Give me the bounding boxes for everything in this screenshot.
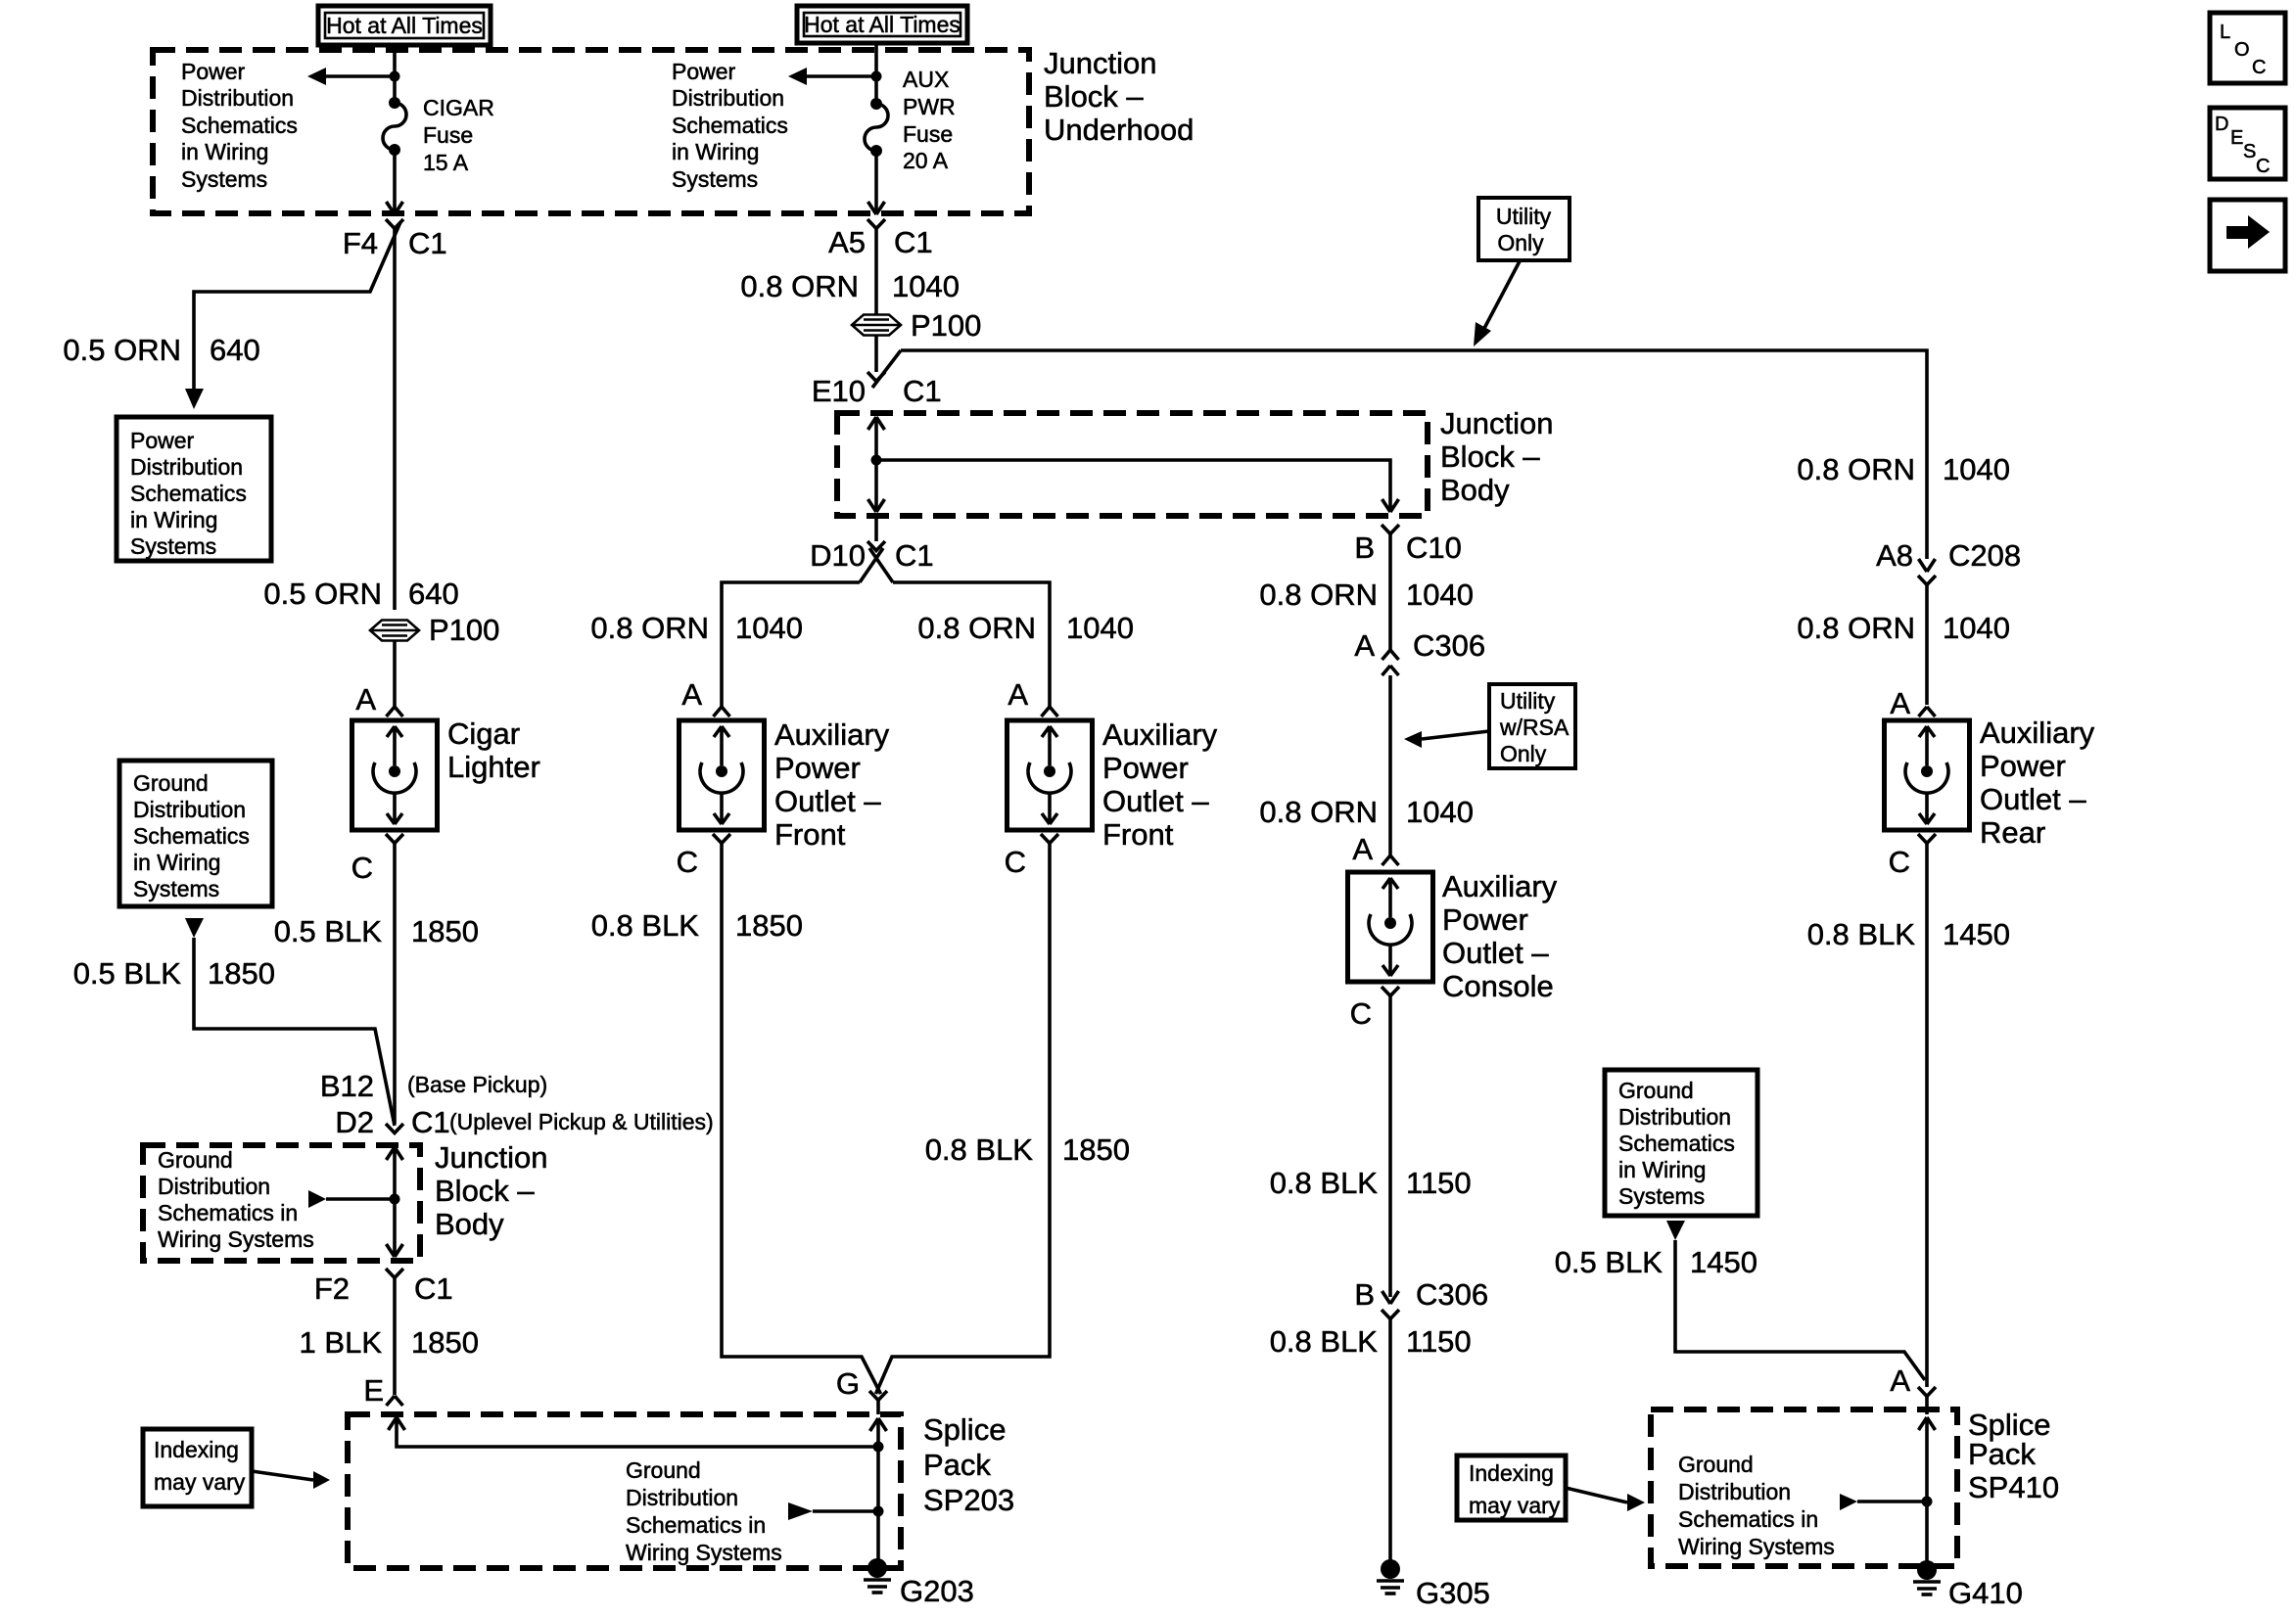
svg-text:D10: D10 [810,538,866,573]
svg-text:Splice: Splice [923,1412,1006,1447]
svg-text:Systems: Systems [1618,1183,1705,1209]
svg-text:(Uplevel Pickup & Utilities): (Uplevel Pickup & Utilities) [449,1109,714,1134]
reference box Power Distribution Schematics in Wiring Systems [117,417,271,561]
svg-text:Distribution: Distribution [130,454,243,480]
svg-text:Junction: Junction [1044,46,1156,80]
svg-text:Schematics: Schematics [133,823,250,849]
label 0.5 ORN 640 (branch) [63,333,259,367]
connector C1 pin D10 (female split) [860,516,893,582]
connector C1 pin A5 (female) [867,219,885,229]
svg-text:Power: Power [672,59,736,84]
svg-text:Schematics in: Schematics in [1678,1506,1818,1532]
label Ground Distribution Schematics in Wiring Systems (in SP410) [1678,1452,1835,1559]
svg-text:Outlet –: Outlet – [774,784,881,818]
svg-text:0.5 ORN: 0.5 ORN [63,333,181,367]
connector pin C console outlet [1382,987,1399,996]
svg-text:in Wiring: in Wiring [133,850,220,875]
svg-text:0.5 BLK: 0.5 BLK [1555,1245,1663,1279]
svg-text:0.8 ORN: 0.8 ORN [1259,577,1378,612]
ground G203 [864,1558,891,1593]
svg-text:Auxiliary: Auxiliary [774,717,890,752]
connector pin C cigar lighter [386,834,403,844]
svg-text:C10: C10 [1406,531,1462,565]
splice pack SP203 (dashed outline) [348,1414,901,1568]
svg-text:1850: 1850 [208,956,275,991]
wire 0.8 ORN 1040 to rear outlet [1925,585,1929,706]
wire 0.5 BLK 1850 from cigar lighter [393,844,397,1125]
connector C306 pin B (inline, down) [1382,1291,1399,1319]
svg-text:C: C [1889,845,1910,879]
svg-text:C: C [1350,996,1372,1031]
svg-text:C1: C1 [411,1105,450,1139]
svg-text:SP410: SP410 [1968,1470,2059,1504]
label 0.8 ORN 1040 (rear upper) [1797,452,2010,486]
svg-text:Wiring Systems: Wiring Systems [158,1226,314,1252]
svg-text:G203: G203 [900,1574,974,1608]
wire 1 BLK 1850 to splice pack [393,1278,397,1396]
svg-text:15 A: 15 A [423,150,469,175]
svg-text:A: A [681,677,702,712]
junction dot SP410 [1922,1497,1933,1507]
svg-text:Power: Power [774,751,861,785]
label 0.8 ORN 1040 (console upper) [1259,577,1474,612]
svg-text:0.5 BLK: 0.5 BLK [274,914,383,948]
svg-text:Systems: Systems [181,166,267,192]
svg-text:C: C [351,851,373,885]
svg-text:C1: C1 [903,374,942,408]
svg-text:0.5 BLK: 0.5 BLK [73,956,182,991]
label 0.5 ORN 640 (main) [263,577,458,611]
label Auxiliary Power Outlet - Console [1442,869,1558,1003]
label Junction Block - Underhood [1044,46,1194,147]
svg-text:1850: 1850 [411,914,479,948]
component Auxiliary Power Outlet - Rear [1885,720,1970,830]
svg-text:Fuse: Fuse [903,121,953,147]
svg-text:Ground: Ground [158,1147,233,1173]
svg-text:C1: C1 [895,538,934,573]
junction dot SP203 upper [873,1442,884,1453]
svg-text:C: C [1005,845,1026,879]
svg-text:Junction: Junction [1440,406,1553,440]
svg-text:E: E [2230,127,2243,149]
connector arrow into C1 at F4 [387,202,403,214]
label Auxiliary Power Outlet - Front (right) [1102,717,1218,852]
svg-text:C1: C1 [414,1271,453,1306]
svg-text:PWR: PWR [903,94,956,119]
svg-text:1040: 1040 [1943,611,2010,645]
wire 0.5 BLK 1450 from ground distribution reference to SP410 [1666,1221,1925,1380]
svg-text:A: A [1007,677,1028,712]
node Hot at All Times (left feed) [318,6,491,45]
connector splice pack pin E [387,1396,403,1406]
svg-text:Outlet –: Outlet – [1980,782,2086,816]
svg-text:may vary: may vary [1469,1493,1561,1518]
svg-text:D: D [2215,114,2228,135]
wire inside SP203 from pin E [389,1417,876,1447]
svg-text:Power: Power [1442,902,1528,937]
svg-text:1040: 1040 [1406,795,1474,829]
wire pin C right front outlet to G merge [876,844,1051,1395]
legend box next-page arrow [2210,200,2285,271]
svg-text:A: A [1890,686,1910,720]
svg-text:B12: B12 [320,1069,374,1103]
callout Utility Only [1478,198,1570,260]
svg-text:Only: Only [1497,230,1544,255]
svg-text:0.8 ORN: 0.8 ORN [590,611,709,645]
connector pin C left front outlet [713,834,730,844]
svg-text:Schematics: Schematics [1618,1131,1735,1156]
svg-text:Body: Body [1440,473,1510,507]
svg-text:C: C [677,845,698,879]
label 0.5 BLK 1850 (cigar) [274,914,479,948]
wire inside SP203 down to G203 [870,1401,887,1564]
svg-text:E10: E10 [812,374,866,408]
svg-text:Outlet –: Outlet – [1442,936,1549,970]
svg-text:G410: G410 [1948,1576,2023,1610]
wire arrow to Power Distribution Schematics (left, col1) [307,68,395,85]
svg-text:Ground: Ground [626,1457,701,1483]
svg-text:P100: P100 [429,613,499,647]
svg-text:0.8 ORN: 0.8 ORN [917,611,1036,645]
svg-text:E: E [363,1373,384,1408]
ground G410 [1913,1560,1941,1594]
svg-text:P100: P100 [911,308,981,343]
svg-text:Power: Power [181,59,246,84]
svg-text:A8: A8 [1876,538,1913,573]
label Cigar Lighter [447,716,540,784]
svg-text:C1: C1 [408,226,447,260]
svg-text:in Wiring: in Wiring [130,507,217,532]
fuse AUX PWR Fuse 20 A [865,98,888,157]
wire 0.5 ORN 640 to cigar lighter [393,228,397,610]
component Auxiliary Power Outlet - Console [1348,872,1433,982]
svg-text:0.8 BLK: 0.8 BLK [925,1132,1034,1167]
svg-text:Utility: Utility [1496,204,1552,229]
svg-text:Front: Front [1102,817,1174,852]
svg-text:1040: 1040 [892,269,960,303]
svg-text:C: C [2256,156,2270,177]
reference box Ground Distribution Schematics in Wiring Systems (left) [119,761,272,906]
wire P100 to junction block body [874,336,878,372]
svg-text:0.5 ORN: 0.5 ORN [263,577,382,611]
ground G305 [1377,1559,1404,1594]
svg-text:Schematics in: Schematics in [158,1200,298,1225]
wire arrow from Indexing may vary to SP203 [252,1471,330,1489]
svg-text:Hot at All Times: Hot at All Times [326,13,483,38]
label 0.8 BLK 1450 [1807,917,2010,951]
label 0.8 BLK 1850 (left front outlet) [591,908,803,943]
connector pin A right front outlet [1042,707,1058,716]
label Power Distribution Schematics in Wiring Systems (col2) [672,59,788,192]
wire AUX PWR fuse output [874,151,878,214]
svg-text:1850: 1850 [411,1325,479,1360]
svg-text:1040: 1040 [1066,611,1134,645]
svg-text:Outlet –: Outlet – [1102,784,1209,818]
svg-text:Body: Body [435,1207,504,1241]
svg-text:(Base Pickup): (Base Pickup) [407,1072,547,1097]
svg-text:B: B [1354,531,1375,565]
svg-text:Power: Power [130,428,195,453]
wire from Hot at All Times to CIGAR fuse [393,45,397,103]
wire split to left front outlet [722,582,860,707]
svg-text:Pack: Pack [923,1448,991,1482]
svg-text:0.8 BLK: 0.8 BLK [1270,1166,1379,1200]
node Hot at All Times (right feed) [797,6,967,43]
svg-text:Block –: Block – [1044,79,1144,114]
callout Utility w/RSA Only [1489,684,1575,768]
component Cigar Lighter [352,720,438,830]
connector SP203 pin G (female) [869,1391,887,1401]
junction block U2 Junction Block - Body lower (dashed outline) [143,1145,420,1261]
wire arrow to Power Distribution Schematics (left, col2) [788,68,876,85]
splice pack SP410 (dashed outline) [1651,1409,1957,1566]
connector C1 pin F4 (female) [386,219,403,229]
svg-text:AUX: AUX [903,67,949,92]
svg-text:1040: 1040 [1406,577,1474,612]
connector P100 (col1) [370,621,419,641]
junction dot at AUX PWR fuse feed [871,71,882,82]
label 0.8 ORN 1040 (left front outlet) [590,611,803,645]
svg-text:Distribution: Distribution [133,797,246,822]
svg-text:Systems: Systems [133,876,219,901]
svg-text:1850: 1850 [735,908,803,943]
svg-text:0.8 ORN: 0.8 ORN [1797,611,1915,645]
label Auxiliary Power Outlet - Front (left) [774,717,890,852]
connector C10 pin B (female) [1382,525,1399,534]
connector pin C rear outlet [1918,834,1936,844]
wire arrow from Indexing may vary to SP410 [1566,1488,1645,1511]
fuse CIGAR Fuse 15 A [383,97,406,156]
label 0.8 ORN 1040 (console lower) [1259,795,1474,829]
svg-text:Cigar: Cigar [447,716,520,751]
label Power Distribution Schematics in Wiring Systems (col1) [181,59,298,192]
svg-text:Ground: Ground [1678,1452,1754,1477]
legend box LOC [2210,13,2285,83]
wire 0.8 BLK 1450 rear outlet to SP410 [1925,844,1929,1388]
wire arrow from ground distribution text to SP410 splice [1840,1494,1922,1510]
svg-text:Indexing: Indexing [1469,1460,1554,1486]
svg-text:0.8 ORN: 0.8 ORN [1259,795,1378,829]
label AUX PWR Fuse 20 A [903,67,956,173]
label 0.5 BLK 1850 (ground branch) [73,956,275,991]
svg-text:Systems: Systems [130,533,216,559]
svg-text:F4: F4 [343,226,378,260]
svg-text:S: S [2243,141,2256,162]
junction dot at CIGAR fuse feed [390,71,400,82]
svg-text:Wiring Systems: Wiring Systems [626,1540,782,1565]
junction dot inside junction block body (feed split) [871,455,882,466]
svg-text:G: G [836,1366,860,1401]
svg-text:Indexing: Indexing [154,1437,239,1462]
svg-text:Wiring Systems: Wiring Systems [1678,1534,1835,1559]
junction dot inside junction block body [390,1194,400,1205]
svg-text:Ground: Ground [1618,1078,1694,1103]
connector C208 pin A8 (inline, down) [1918,559,1936,585]
connector C1 pin D2 (female) [386,1124,403,1133]
wire arrow from ground distribution text to junction [308,1190,390,1208]
svg-text:in Wiring: in Wiring [181,139,268,164]
wire P100 to cigar lighter pin A [393,641,397,707]
label 0.8 BLK 1150 (lower) [1270,1324,1472,1359]
label 0.5 BLK 1450 [1555,1245,1757,1279]
connector pin C right front outlet [1041,834,1058,844]
svg-text:w/RSA: w/RSA [1499,715,1570,740]
svg-text:Auxiliary: Auxiliary [1980,716,2095,750]
svg-text:Fuse: Fuse [423,122,473,148]
svg-text:1150: 1150 [1406,1166,1472,1200]
svg-text:Schematics: Schematics [181,113,298,138]
svg-text:may vary: may vary [154,1469,246,1495]
svg-text:CIGAR: CIGAR [423,95,494,120]
svg-text:1 BLK: 1 BLK [300,1325,383,1360]
svg-text:0.8 ORN: 0.8 ORN [740,269,859,303]
wire inside SP410 to G410 [1919,1397,1936,1562]
svg-text:Distribution: Distribution [626,1485,738,1510]
svg-text:20 A: 20 A [903,148,949,173]
svg-text:Lighter: Lighter [447,750,540,784]
label Auxiliary Power Outlet - Rear [1980,716,2095,850]
svg-text:Schematics: Schematics [672,113,788,138]
callout Indexing may vary (right) [1457,1455,1566,1520]
junction block U1 Junction Block - Underhood (dashed outline) [153,50,1029,213]
svg-text:Power: Power [1980,749,2066,783]
svg-text:Underhood: Underhood [1044,113,1194,147]
svg-text:C208: C208 [1948,538,2021,573]
label 0.8 BLK 1850 (right front outlet) [925,1132,1130,1167]
wire 0.8 BLK 1150 to G305 [1388,1319,1392,1561]
wire from Hot at All Times to AUX PWR fuse [874,43,878,104]
label Junction Block - Body (lower) [435,1140,547,1241]
component Auxiliary Power Outlet - Front (left) [679,720,765,830]
wire inside junction block body (ground path) [387,1147,403,1257]
svg-text:Block –: Block – [435,1174,535,1208]
wire 0.8 ORN 1040 console upper [1388,534,1392,651]
svg-text:1450: 1450 [1943,917,2010,951]
svg-text:1040: 1040 [735,611,803,645]
wire C306 to console outlet [1388,675,1392,855]
svg-text:in Wiring: in Wiring [1618,1157,1706,1182]
svg-text:1450: 1450 [1690,1245,1757,1279]
label Splice Pack SP410 [1968,1408,2059,1504]
wire 0.8 BLK 1150 console to C306 [1388,996,1392,1298]
svg-text:C306: C306 [1413,628,1485,663]
wire 0.5 ORN 640 branch to Power Distribution Schematics box [185,222,400,409]
svg-text:Distribution: Distribution [181,85,294,111]
svg-text:640: 640 [210,333,260,367]
svg-text:A: A [1352,832,1373,866]
legend box DESC [2210,108,2285,179]
svg-text:Hot at All Times: Hot at All Times [804,12,961,37]
connector pin A console outlet [1382,855,1399,865]
wire inside junction block body to console branch [876,460,1399,512]
svg-text:Distribution: Distribution [158,1174,270,1199]
svg-text:SP203: SP203 [923,1483,1014,1517]
svg-text:D2: D2 [335,1105,374,1139]
svg-text:Distribution: Distribution [1618,1104,1731,1130]
label Ground Distribution Schematics in Wiring Systems (in box) [158,1147,314,1252]
svg-text:F2: F2 [314,1271,350,1306]
svg-text:Distribution: Distribution [672,85,784,111]
svg-text:A: A [355,682,376,716]
svg-text:Schematics in: Schematics in [626,1512,766,1538]
svg-text:Front: Front [774,817,846,852]
svg-text:Block –: Block – [1440,439,1540,474]
svg-text:0.8 ORN: 0.8 ORN [1797,452,1915,486]
label 0.8 ORN 1040 (right front outlet) [917,611,1134,645]
svg-text:1850: 1850 [1062,1132,1130,1167]
svg-text:Schematics: Schematics [130,481,247,506]
label 0.8 ORN 1040 (top) [740,269,960,303]
svg-text:in Wiring: in Wiring [672,139,759,164]
wire arrow from Utility w/RSA Only to console wire [1404,731,1489,748]
wire pin C left front outlet to G merge [722,844,881,1395]
connector SP410 pin A (female) [1918,1387,1936,1397]
svg-text:Utility: Utility [1500,688,1556,714]
label Junction Block - Body (upper) [1440,406,1553,507]
wire CIGAR fuse output [393,150,397,214]
svg-text:A: A [1354,628,1375,663]
component Auxiliary Power Outlet - Front (right) [1007,720,1093,830]
connector arrow into C1 at A5 [868,202,885,214]
connector C306 pin A (inline) [1382,650,1399,675]
svg-text:640: 640 [408,577,459,611]
junction dot SP203 lower [873,1506,884,1517]
svg-text:G305: G305 [1416,1576,1490,1610]
svg-text:Pack: Pack [1968,1437,2036,1471]
svg-text:Systems: Systems [672,166,758,192]
svg-text:O: O [2234,39,2250,61]
svg-text:0.8 BLK: 0.8 BLK [1270,1324,1379,1359]
connector pin A left front outlet [714,707,730,716]
svg-text:Junction: Junction [435,1140,547,1175]
svg-text:A: A [1890,1363,1910,1398]
svg-text:Power: Power [1102,751,1189,785]
svg-text:Distribution: Distribution [1678,1479,1791,1504]
label CIGAR Fuse 15 A [423,95,494,175]
connector P100 (col2) [852,315,901,336]
label Splice Pack SP203 [923,1412,1014,1517]
svg-text:C1: C1 [894,225,933,259]
wire arrow from Utility Only to rear takeoff wire [1474,261,1520,346]
wire 0.8 ORN 1040 to P100 [874,229,878,316]
svg-text:A5: A5 [828,225,866,259]
svg-text:1040: 1040 [1943,452,2010,486]
wire E10 into junction block body [868,417,885,512]
callout Indexing may vary (left) [143,1429,252,1506]
svg-text:L: L [2220,22,2230,43]
label 0.8 BLK 1150 (upper) [1270,1166,1472,1200]
svg-text:Only: Only [1500,741,1547,766]
wire 0.5 BLK 1850 from ground distribution reference [185,918,395,1126]
svg-text:C306: C306 [1416,1277,1488,1312]
label 1 BLK 1850 [300,1325,479,1360]
svg-text:Auxiliary: Auxiliary [1442,869,1558,903]
junction block U2 Junction Block - Body (dashed outline) [837,413,1428,516]
wire arrow from ground distribution text to SP203 splice [788,1502,873,1520]
connector pin A rear outlet [1919,707,1936,716]
svg-text:0.8 BLK: 0.8 BLK [591,908,700,943]
connector pin A cigar lighter [387,707,403,716]
svg-text:Console: Console [1442,969,1554,1003]
svg-text:1150: 1150 [1406,1324,1472,1359]
svg-text:Rear: Rear [1980,815,2045,850]
label 0.8 ORN 1040 (rear lower) [1797,611,2010,645]
connector C1 pin F2 (female) [386,1269,403,1278]
svg-text:Auxiliary: Auxiliary [1102,717,1218,752]
connector C1 pin E10 (female with takeoff) [867,350,901,388]
svg-text:C: C [2252,57,2266,78]
reference box Ground Distribution Schematics in Wiring Systems (right) [1605,1070,1757,1216]
